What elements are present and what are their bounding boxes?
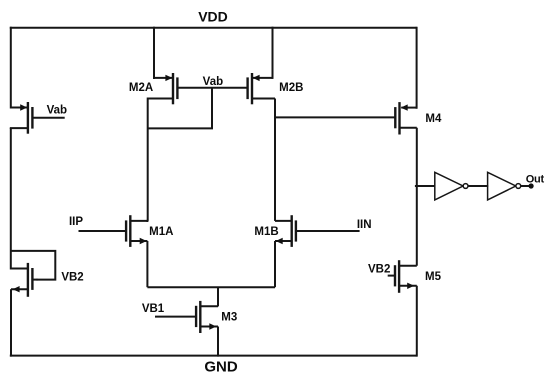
svg-text:IIP: IIP	[69, 216, 83, 228]
wire: tail down to M3 drain	[217, 287, 219, 306]
wire: right branch VDD down to M4 drain	[416, 27, 418, 109]
wire: M1A drain up to M2A source	[146, 220, 148, 222]
svg-text:M1B: M1B	[254, 226, 278, 238]
svg-text:IIN: IIN	[357, 219, 372, 231]
wire: M4 source down to M5 drain	[416, 128, 418, 266]
svg-text:VDD: VDD	[198, 8, 228, 24]
transistor M4	[395, 102, 417, 134]
transistor Q-Vab (left cascode PMOS)	[11, 102, 65, 134]
wire: M5 source down to GND	[416, 286, 418, 357]
svg-text:VB2: VB2	[61, 271, 83, 283]
svg-text:VB1: VB1	[142, 303, 165, 315]
wire: M2B source tap to M4 gate	[275, 116, 395, 118]
wire: left branch VDD down to Vab transistor drain	[10, 27, 12, 109]
wire: M2A source down to M1A drain	[147, 98, 149, 221]
transistor Q-VB2 (left, diode connected)	[11, 263, 38, 297]
wire: inverter U1 output to U2 input	[468, 185, 488, 187]
wire: inverter U2 output to Out	[521, 185, 531, 187]
node Out terminal dot	[529, 183, 534, 188]
transistor M5	[388, 260, 417, 293]
wire: M3 source down to GND	[217, 327, 219, 357]
svg-text:M4: M4	[425, 113, 442, 125]
svg-text:VB2: VB2	[368, 263, 390, 275]
wire: VDD top rail	[10, 27, 417, 29]
transistor M1A	[79, 215, 148, 247]
transistor M1B	[275, 215, 360, 247]
wire: Vab net horizontal to M2A source	[148, 127, 213, 129]
wire: VDD drop to M2A	[153, 27, 155, 79]
svg-text:M2A: M2A	[129, 82, 153, 94]
svg-text:Vab: Vab	[203, 76, 223, 88]
svg-text:M2B: M2B	[279, 82, 303, 94]
transistor M3	[155, 301, 218, 333]
wire: gate line M2A to M2B (Vab net)	[178, 87, 246, 89]
wire: diode connection loop of VB2 transistor	[11, 251, 56, 280]
transistor M2A	[148, 73, 178, 104]
transistor M2B	[248, 73, 275, 104]
wire: M1B source down to tail	[274, 241, 276, 287]
wire: left branch VB2 source to GND	[10, 289, 12, 356]
wire: GND bottom rail	[10, 355, 417, 357]
svg-text:M5: M5	[425, 271, 442, 283]
inverter U2	[488, 172, 521, 200]
wire: left branch between Vab transistor and VB2 transistor	[10, 128, 12, 269]
wire: tap to inverter chain input	[415, 185, 435, 187]
svg-text:M1A: M1A	[149, 226, 173, 238]
wire: M2B source down to M1B drain	[274, 99, 276, 221]
wire: Vab net vertical tap	[211, 88, 213, 129]
inverter U1	[435, 172, 468, 200]
svg-text:M3: M3	[221, 312, 237, 324]
svg-text:Vab: Vab	[47, 104, 67, 116]
svg-text:GND: GND	[204, 359, 238, 376]
wire: tail horizontal joining M1A and M1B sources	[147, 286, 275, 288]
svg-text:Out: Out	[526, 174, 545, 186]
wire: VDD drop to M2B	[272, 27, 274, 79]
wire: M1A source down to tail	[146, 241, 148, 287]
